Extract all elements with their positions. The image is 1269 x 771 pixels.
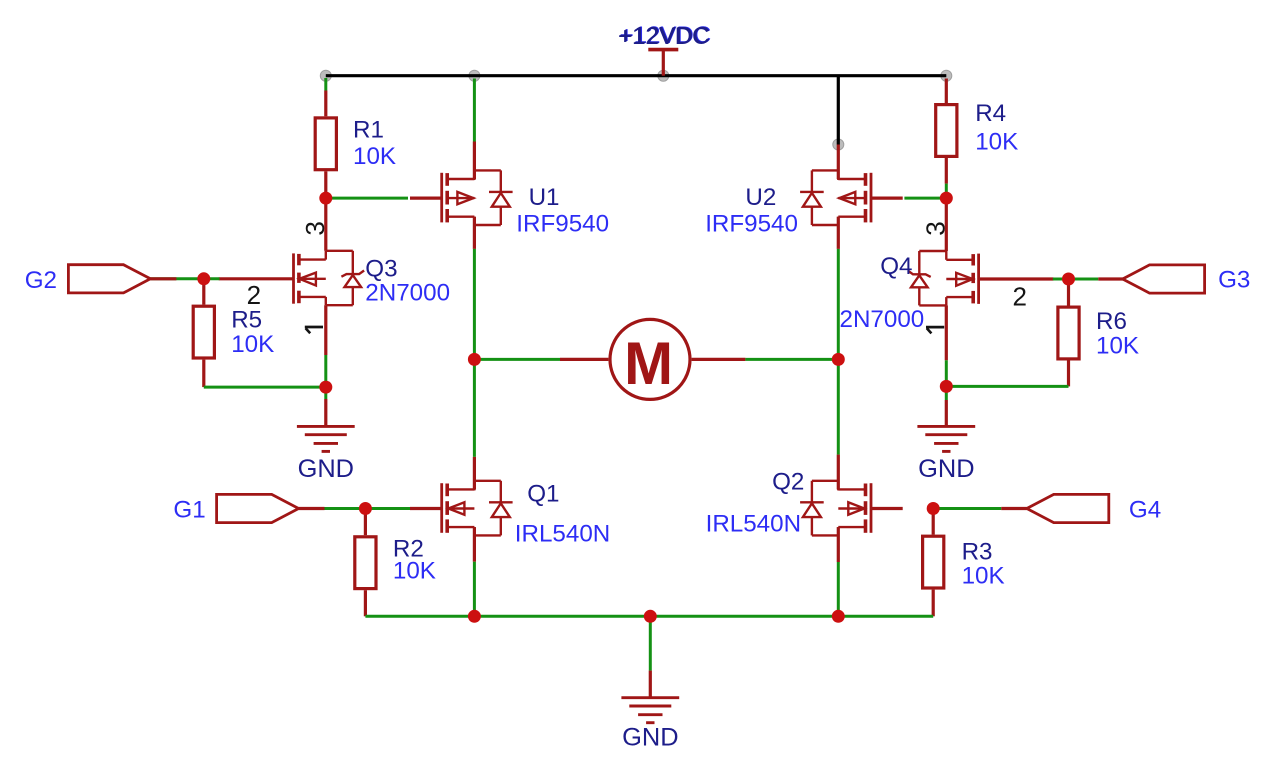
wire R3 top lead [932, 509, 935, 535]
svg-text:R4: R4 [975, 100, 1006, 127]
svg-text:U2: U2 [745, 184, 776, 211]
svg-text:M: M [624, 329, 673, 397]
pin 1 of Q4 [926, 327, 944, 333]
wire U1 gate net [326, 197, 408, 200]
wire Q2 source lead [837, 527, 840, 562]
n-mosfet Q1 IRL540N [410, 481, 513, 536]
wire Q2 drain lead [837, 455, 840, 490]
node +12VDC rail junction dots [320, 70, 331, 81]
svg-text:G1: G1 [173, 497, 205, 524]
p-mosfet U2 IRF9540 [800, 170, 903, 225]
wire motor left lead [560, 358, 608, 361]
junction Q2-source/GND-rail [832, 610, 845, 623]
wire Q4 gate net [1053, 278, 1069, 281]
wire motor right lead [692, 358, 746, 361]
svg-text:10K: 10K [962, 563, 1005, 590]
wire U2 gate net [904, 197, 946, 200]
wire R1 top lead [324, 91, 327, 117]
wire U1 source to motor node [473, 249, 476, 360]
wire Q4 source lead [945, 305, 948, 360]
wire G3 lead red [1098, 277, 1124, 280]
wire motor left net [474, 358, 560, 361]
svg-text:G3: G3 [1218, 267, 1250, 294]
n-mosfet Q4 2N7000 [908, 251, 1053, 305]
junction G1/R2 [359, 502, 372, 515]
resistor R4 [936, 105, 957, 157]
resistor R2 [355, 537, 376, 589]
motor M [610, 319, 690, 399]
svg-text:2: 2 [247, 280, 261, 310]
wire G2 net [150, 277, 219, 280]
ground symbol (right) [917, 426, 975, 451]
svg-text:U1: U1 [529, 184, 560, 211]
wire right gnd stub [945, 386, 948, 400]
wire gnd stem stub [649, 616, 652, 670]
junction U2/Q2/motor-right [832, 353, 845, 366]
svg-text:10K: 10K [353, 143, 396, 170]
svg-text:10K: 10K [1096, 332, 1139, 359]
wire R3 bottom lead [932, 590, 935, 617]
svg-text:3: 3 [300, 221, 330, 235]
pin 1 of Q3 [305, 327, 323, 333]
connector G2 [68, 265, 150, 293]
wire U2 drain lead [837, 145, 840, 180]
wire left gnd lead [324, 399, 327, 426]
wire Q1 source to rail [473, 562, 476, 617]
svg-text:Q4: Q4 [880, 253, 912, 280]
wire Q2 drain net [837, 359, 840, 454]
svg-text:10K: 10K [231, 331, 274, 358]
junction R1/Q3/U1-gate [319, 192, 332, 205]
connector G3 [1123, 265, 1205, 293]
wire Q3 drain lead [324, 198, 327, 251]
wire R4 bottom lead [945, 158, 948, 184]
wire Q3 source lead [324, 305, 327, 355]
wire R2 bottom lead [364, 590, 367, 616]
junction G3/R6 [1062, 273, 1075, 286]
svg-text:GND: GND [918, 455, 974, 483]
svg-text:GND: GND [622, 723, 678, 751]
svg-text:Q3: Q3 [365, 255, 397, 282]
svg-text:Q2: Q2 [772, 469, 804, 496]
supply +12VDC symbol [648, 50, 678, 76]
n-mosfet Q2 IRL540N [800, 481, 903, 536]
resistor R3 [923, 536, 944, 588]
svg-text:10K: 10K [393, 558, 436, 585]
wire G4 lead red [1001, 507, 1027, 510]
svg-text:IRF9540: IRF9540 [705, 210, 798, 237]
svg-text:R5: R5 [231, 307, 262, 334]
wire U1 drain stub [473, 79, 476, 142]
connector G4 [1027, 494, 1109, 522]
svg-text:2N7000: 2N7000 [365, 279, 450, 306]
wire G2 lead red [150, 277, 176, 280]
svg-text:R3: R3 [962, 539, 993, 566]
wire left gnd stub [324, 387, 327, 399]
n-mosfet Q3 2N7000 [219, 251, 364, 305]
wire U2 source lead [837, 217, 840, 249]
wire R2 top lead [364, 509, 367, 536]
wire gnd stem lead [649, 671, 652, 698]
svg-text:2N7000: 2N7000 [840, 306, 925, 333]
wire Q1 drain net [473, 359, 476, 457]
junction U1/Q1/motor-left [468, 353, 481, 366]
svg-text:Q1: Q1 [527, 481, 559, 508]
svg-text:10K: 10K [975, 129, 1018, 156]
wire Q3 source to gnd node [324, 355, 327, 387]
svg-text:IRL540N: IRL540N [706, 511, 801, 538]
wire Q2 source to rail [837, 562, 840, 616]
wire Q4 drain lead [945, 198, 948, 251]
junction G4/R3 [927, 502, 940, 515]
wire R4 top lead [945, 79, 948, 104]
wire G1 net [325, 507, 411, 510]
junction Q3-source/R5/GND [319, 381, 332, 394]
wire Q1 drain lead [473, 457, 476, 490]
wire R6 bottom lead [1067, 361, 1070, 387]
wire R6 top lead [1067, 279, 1070, 306]
wire R5 top lead [202, 279, 205, 305]
wire motor right net [745, 358, 838, 361]
wire U2 source to motor node [837, 249, 840, 360]
wire +12VDC rail [326, 74, 947, 77]
resistor R5 [193, 306, 214, 358]
svg-text:G2: G2 [25, 267, 57, 294]
wire Q4 source to gnd node [945, 360, 948, 386]
wire U1 source lead [473, 217, 476, 249]
junction Q4-source/R6/GND [940, 380, 953, 393]
svg-text:G4: G4 [1129, 497, 1161, 524]
svg-text:3: 3 [920, 221, 950, 235]
junction Q1-source/GND-rail [468, 610, 481, 623]
wire R4 bottom stub [945, 184, 948, 199]
svg-text:R1: R1 [353, 117, 384, 144]
wire G4 net [933, 507, 1001, 510]
wire G1 lead red [299, 507, 325, 510]
svg-text:+12VDC: +12VDC [619, 23, 710, 50]
junction R4/Q4/U2-gate [940, 192, 953, 205]
wire GND rail [365, 615, 933, 618]
svg-text:2: 2 [1013, 281, 1027, 311]
p-mosfet U1 IRF9540 [410, 170, 513, 225]
svg-text:IRF9540: IRF9540 [516, 210, 609, 237]
svg-text:GND: GND [298, 455, 354, 483]
svg-text:R6: R6 [1096, 308, 1127, 335]
wire R6 to Q4 source [946, 385, 1068, 388]
wire R1 top stub [324, 78, 327, 91]
connector G1 [217, 494, 299, 522]
junction GND-stem [644, 610, 657, 623]
wire R1 bottom lead [324, 171, 327, 198]
wire G3 net [1069, 278, 1099, 281]
label net +12VDC [618, 22, 711, 50]
svg-text:IRL540N: IRL540N [515, 521, 610, 548]
wire Q1 source lead [473, 527, 476, 562]
resistor R1 [315, 118, 336, 170]
resistor R6 [1058, 307, 1079, 359]
wire right gnd lead [945, 400, 948, 426]
wire U1 drain lead [473, 142, 476, 180]
wire R5 to Q3 source [204, 386, 326, 389]
wire R5 bottom lead [202, 360, 205, 388]
wire +12VDC drop to U2 [837, 76, 840, 145]
junction G2/R5 [197, 272, 210, 285]
ground symbol (main) [621, 698, 679, 723]
ground symbol (left) [297, 426, 355, 451]
